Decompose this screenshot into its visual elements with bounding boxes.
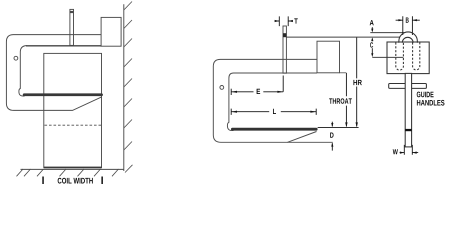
- inner line extension to THROAT: [340, 72, 347, 74]
- label W: [393, 149, 398, 154]
- label HR: [353, 80, 361, 85]
- D arrow down (top): [331, 123, 333, 127]
- label THROAT: [329, 98, 352, 103]
- dim D top tick: [331, 122, 333, 127]
- coil width tick left: [42, 177, 44, 185]
- reference line upper (A level): [370, 32, 404, 34]
- C-frame inner contour (middle): [227, 73, 317, 131]
- reference line from rod cap bottom: [286, 36, 399, 38]
- coil rectangle: [44, 53, 102, 167]
- dim E extension line from rod: [282, 76, 284, 92]
- dim L line: [231, 111, 316, 113]
- electrode rod (left): [70, 9, 74, 45]
- B ticks (extension lines down to arch): [403, 16, 413, 35]
- label L: [273, 109, 276, 114]
- label COIL WIDTH: [58, 178, 93, 184]
- C top tick (arrow up to line 37): [371, 39, 373, 42]
- coil bottom heavy edge: [44, 167, 102, 169]
- bar-top extension line: [318, 126, 359, 128]
- dim E line: [231, 91, 283, 93]
- T dim line left + right: [275, 20, 292, 22]
- HR dim vertical: [356, 37, 358, 126]
- rod cap mark (left): [70, 11, 74, 13]
- dim D bottom tick: [331, 143, 333, 150]
- label E: [257, 89, 261, 94]
- dim E arrow left: [231, 91, 237, 93]
- THROAT dim vertical: [345, 73, 347, 126]
- label C: [370, 42, 373, 47]
- THROAT arrow down: [345, 122, 347, 127]
- A arrow tick down: [371, 27, 373, 31]
- electrode rod (middle): [283, 26, 286, 73]
- hidden dashed right socket U: [413, 43, 420, 70]
- coil mid dashed line: [45, 124, 102, 126]
- guide handle outer arch: [399, 32, 418, 43]
- hole (middle): [220, 86, 224, 90]
- HR arrow down: [356, 122, 358, 127]
- dim L arrow left: [231, 111, 237, 113]
- label HANDLES: [417, 100, 445, 106]
- dim T arrow left: [275, 20, 280, 22]
- label GUIDE: [417, 92, 434, 98]
- C bottom tick (arrow down to line 57): [371, 48, 373, 55]
- wall hatching: [124, 2, 133, 173]
- hidden dashed left socket U: [396, 43, 404, 71]
- dim L arrow right: [310, 111, 316, 113]
- gun body rect (end view): [387, 42, 429, 74]
- W dim line segments: [400, 152, 419, 154]
- dim B arrow left: [398, 19, 403, 21]
- T ticks: [279, 16, 288, 26]
- dim T arrow right: [288, 20, 293, 22]
- dim E arrow right: [277, 91, 283, 93]
- dim E tick left: [230, 89, 232, 95]
- bottom edge extension to D: [288, 141, 333, 143]
- dim L ticks: [231, 109, 316, 115]
- C-frame outer contour: [6, 35, 102, 111]
- C-frame outer contour (middle): [213, 59, 317, 142]
- dim W arrow right: [412, 152, 416, 154]
- stem black band: [405, 129, 411, 131]
- mount block (left): [101, 17, 121, 46]
- hole: [14, 56, 18, 60]
- dim B arrow right: [412, 19, 417, 21]
- reference line C bottom: [372, 56, 403, 58]
- coil width tick right: [101, 177, 103, 185]
- label D: [330, 132, 333, 137]
- dim W arrow left: [400, 152, 404, 154]
- label T: [294, 18, 297, 23]
- lower arm heavy bar (left): [23, 93, 103, 96]
- lower arm heavy bar (middle): [231, 128, 318, 131]
- stem (end view): [405, 73, 411, 146]
- C-frame inner top edge (thick): [26, 45, 101, 47]
- floor hatching: [17, 169, 119, 176]
- W ticks: [404, 145, 412, 155]
- C-frame inner contour: [19, 46, 27, 97]
- B dim line segments: [396, 19, 420, 21]
- wall line: [123, 4, 125, 171]
- crossbar guide handle: [389, 84, 427, 89]
- mount block (middle): [317, 41, 340, 73]
- label B: [406, 17, 409, 22]
- D arrow up (bottom): [331, 143, 333, 147]
- floor line: [21, 168, 124, 170]
- guide handle inner arch: [402, 37, 413, 42]
- rod cap dark (middle): [283, 33, 286, 37]
- label A: [370, 20, 374, 25]
